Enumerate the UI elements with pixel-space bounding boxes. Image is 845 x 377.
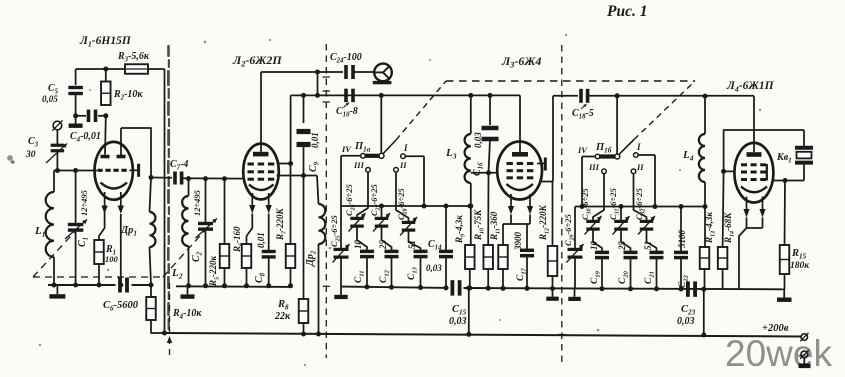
wire Л3 anode riser <box>552 96 554 182</box>
quartz Кв1 <box>803 130 805 146</box>
node anode2/C7/Dr1 <box>149 175 154 180</box>
node L3 top <box>468 93 473 98</box>
svg-text:Рис. 1: Рис. 1 <box>607 3 647 20</box>
resistor R13 <box>700 247 710 269</box>
svg-text:С4​-0,01: С4​-0,01 <box>70 131 101 144</box>
svg-text:0,03: 0,03 <box>677 316 695 327</box>
capacitor C18 <box>579 89 583 103</box>
svg-text:II: II <box>636 162 644 172</box>
resistor R9 <box>465 245 475 269</box>
svg-text:10: 10 <box>589 241 599 251</box>
resistor R1 cathode <box>99 207 105 240</box>
resistor R12 <box>552 182 554 247</box>
main B+ bus <box>165 333 802 337</box>
switch П1б riser <box>616 96 618 154</box>
tube Л3 grid rows <box>507 162 513 165</box>
node C15/bus drop <box>466 286 471 291</box>
coil L2 <box>188 179 190 196</box>
scan specks <box>7 155 13 161</box>
capacitor C1 variable <box>75 171 77 225</box>
svg-text:5100: 5100 <box>677 230 687 249</box>
capacitor C14 <box>445 206 447 250</box>
node C23/bus drop <box>701 287 706 292</box>
trimmer C25 <box>340 156 342 249</box>
capacitor C7 <box>151 177 172 179</box>
tube Л3 cathode arc <box>507 184 534 190</box>
ground symbol sec1 <box>56 285 58 294</box>
phone jack <box>374 64 392 82</box>
resistor R4 <box>150 285 152 297</box>
svg-text:20wek: 20wek <box>725 333 832 374</box>
capacitor C24 <box>344 65 348 79</box>
tube Л2 envelope <box>243 144 279 200</box>
wire C18 line <box>553 95 578 97</box>
chassis ground symbol <box>803 358 805 364</box>
capacitor C23 <box>686 281 690 297</box>
node L4 feed <box>703 94 708 99</box>
node anode1/R2/C4 <box>103 113 108 118</box>
tube Л3 envelope <box>497 142 542 200</box>
capacitor C20 <box>621 231 631 252</box>
svg-text:R2​-10к: R2​-10к <box>113 89 143 102</box>
ground below C5 <box>75 116 77 124</box>
capacitor C12 <box>382 228 392 251</box>
capacitor C11 <box>357 228 367 251</box>
capacitor C8 <box>268 214 270 252</box>
svg-text:IV: IV <box>341 144 352 154</box>
shield partition 2 <box>325 44 327 358</box>
ground symbol R12 <box>552 289 554 297</box>
wire Л2 anode riser <box>260 72 262 144</box>
ground symbol shield3 <box>574 289 576 297</box>
node L2 top <box>186 176 191 181</box>
trimmer C28 <box>396 172 409 222</box>
cathode drop Л4 <box>739 218 747 290</box>
tube Л4 cathode arrows <box>746 197 748 211</box>
grid loop Л4 <box>724 130 804 171</box>
svg-text:I: I <box>403 143 408 153</box>
antenna input symbol <box>53 121 62 130</box>
screen line A <box>291 94 520 96</box>
tube Л2 grid rows <box>248 163 254 166</box>
choke Dr1 <box>150 178 152 213</box>
contact III П1а <box>366 168 371 173</box>
svg-text:51: 51 <box>407 240 417 249</box>
resistor R2 <box>105 69 107 82</box>
capacitor C4 <box>76 115 86 117</box>
switch П1а wiper arm <box>341 155 361 157</box>
switch П1а riser <box>380 95 382 153</box>
svg-text:III: III <box>588 162 600 172</box>
tube Л2 anode bar <box>253 152 269 157</box>
capacitor C2 variable <box>205 179 207 223</box>
trimmer C30 <box>593 174 604 221</box>
tube Л1 grid terminal bar <box>130 169 139 171</box>
node R5 top <box>222 176 227 181</box>
bank1 bus <box>341 205 470 207</box>
switch П1б wiper arm <box>582 156 596 158</box>
node R2 top <box>103 67 108 72</box>
svg-text:12÷495: 12÷495 <box>192 189 202 216</box>
contact I П1б <box>634 153 639 158</box>
svg-text:51: 51 <box>643 241 653 250</box>
svg-text:Л3​-6Ж4: Л3​-6Ж4 <box>501 54 541 70</box>
svg-text:R4​-10к: R4​-10к <box>172 308 202 321</box>
capacitor C16 <box>489 95 491 125</box>
ground symbol R15 <box>782 289 785 297</box>
resistor R14 <box>723 171 724 247</box>
node C9 bottom <box>301 173 306 178</box>
svg-text:22к: 22к <box>274 311 291 322</box>
capacitor C17 <box>526 224 528 249</box>
cathode R6 <box>247 214 253 245</box>
svg-text:0,03: 0,03 <box>473 132 483 148</box>
wire quartz bottom link <box>772 180 804 182</box>
tube Л4 anode bar <box>747 152 762 157</box>
tube Л3 grid terminal bar <box>537 163 545 165</box>
ground symbol sec2 <box>187 286 189 295</box>
svg-text:30: 30 <box>25 150 36 160</box>
scan crease artifacts <box>167 45 170 57</box>
svg-text:I: I <box>636 142 641 152</box>
node R4/bus <box>162 331 167 336</box>
choke Dr2 <box>317 176 319 205</box>
tube Л4 grid rows <box>741 163 747 166</box>
svg-text:0,05: 0,05 <box>42 94 58 104</box>
ground symbol bank1 <box>340 287 342 295</box>
wire Л2 plate line <box>277 175 318 177</box>
capacitor C13 <box>409 232 421 251</box>
sec1 ground bus <box>48 284 116 286</box>
svg-text:С6​-5600: С6​-5600 <box>103 300 139 313</box>
resistor R7 <box>290 164 292 245</box>
svg-text:С7​-4: С7​-4 <box>170 159 188 172</box>
capacitor C22 <box>680 207 682 252</box>
svg-text:II: II <box>399 160 407 170</box>
cathode rail Л3 <box>510 215 512 225</box>
svg-text:III: III <box>353 160 365 170</box>
svg-text:10: 10 <box>353 240 363 250</box>
grid line Л3 <box>471 172 498 174</box>
contact II П1а <box>394 168 399 173</box>
tube Л2 cathode arc <box>249 185 274 191</box>
wire B+ riser to R3 <box>164 69 166 333</box>
linkage diagonal П1а <box>383 140 396 154</box>
svg-text:3900: 3900 <box>513 232 523 252</box>
trimmer C31 <box>620 207 622 222</box>
bank2 bus <box>575 206 705 208</box>
wire cathode2 to ground bus <box>120 214 122 285</box>
svg-text:0,03: 0,03 <box>449 316 467 327</box>
capacitor C3 trimmer <box>51 144 65 147</box>
trimmer C26 <box>357 172 368 218</box>
contact III П1б <box>602 169 607 174</box>
tuning gang dashed linkage <box>33 226 80 277</box>
svg-text:25: 25 <box>378 240 388 251</box>
coil L1 <box>53 171 55 193</box>
tube Л1 grid dashes <box>98 169 103 172</box>
svg-text:Л2​-6Ж2П: Л2​-6Ж2П <box>232 53 282 69</box>
capacitor C19 <box>593 231 602 252</box>
svg-text:Л1​-6Н15П: Л1​-6Н15П <box>79 35 132 49</box>
coil L3 <box>470 95 472 134</box>
resistor R15 <box>784 181 787 246</box>
wire C24 line <box>261 71 343 73</box>
capacitor C21 <box>647 231 657 252</box>
wire grid line Л1 <box>54 170 97 172</box>
resistor R3 <box>125 64 148 74</box>
chassis terminal <box>801 351 808 358</box>
resistor R10 <box>487 173 489 245</box>
svg-text:R3​-5,6к: R3​-5,6к <box>117 51 150 64</box>
capacitor C10 <box>344 89 348 103</box>
sec2 ground bus <box>176 285 291 288</box>
tube Л1 anode plates <box>101 155 110 159</box>
tube Л4 envelope <box>734 143 773 203</box>
capacitor C5 <box>75 69 77 85</box>
linkage horizontal <box>446 80 695 82</box>
tube Л1 envelope <box>95 142 133 200</box>
trimmer C32 <box>634 174 647 221</box>
+200в terminal <box>801 334 807 340</box>
node C2 top <box>203 176 208 181</box>
svg-text:100: 100 <box>105 254 119 264</box>
tube Л4 internal strap <box>766 164 768 181</box>
resistor R8 <box>303 176 305 300</box>
wire C24-C10 riser <box>317 72 319 95</box>
wire R3 feed line <box>76 68 125 70</box>
resistor R11 <box>502 224 504 245</box>
node C5/C4 <box>73 113 78 118</box>
contact I П1а <box>401 154 406 159</box>
trimmer C29 <box>581 157 583 207</box>
trimmer C27 <box>381 206 383 218</box>
capacitor C6 <box>118 278 122 293</box>
tube Л4 cathode arc <box>741 187 767 193</box>
shield partition 3 <box>561 45 563 366</box>
svg-text:0,03: 0,03 <box>426 263 442 273</box>
wire anode2 top link <box>121 128 151 178</box>
tube Л2 cathode arrows <box>251 193 253 207</box>
node C24/C10 junction <box>315 70 320 75</box>
svg-text:С24​-100: С24​-100 <box>330 52 362 65</box>
svg-text:12÷495: 12÷495 <box>79 189 89 216</box>
svg-text:0,01: 0,01 <box>310 132 320 148</box>
svg-text:IV: IV <box>577 145 588 155</box>
tube Л3 anode bar <box>512 152 528 157</box>
contact II П1б <box>631 169 636 174</box>
svg-text:180к: 180к <box>790 261 810 271</box>
linkage diagonal П1б <box>619 140 634 155</box>
shield partition 1 dashes <box>169 283 171 357</box>
capacitor C9 <box>303 95 305 123</box>
coil L4 <box>704 96 706 134</box>
svg-text:25: 25 <box>617 241 627 252</box>
resistor R5 <box>224 179 226 244</box>
svg-text:Л4​-6Ж1П: Л4​-6Ж1П <box>726 80 775 94</box>
wire Л3 anode lead <box>542 181 554 183</box>
tube Л1 cathode arc <box>101 183 128 189</box>
wire Л4 anode riser <box>753 96 755 143</box>
tube Л1 cathode arrows <box>104 192 106 207</box>
wire Л3 top riser <box>519 95 521 141</box>
tube Л3 cathode arrows <box>510 194 512 208</box>
sec3 ground rail <box>341 287 449 288</box>
svg-text:0,01: 0,01 <box>256 232 266 248</box>
wire anode1 lead <box>104 116 107 155</box>
wire Л2 screen lead <box>278 163 291 165</box>
capacitor C15 <box>450 280 454 296</box>
